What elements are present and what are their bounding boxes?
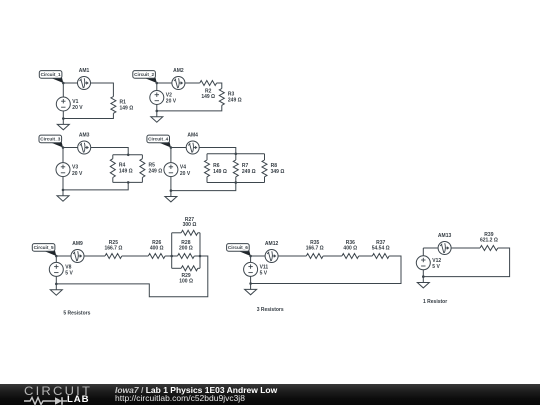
svg-text:5 V: 5 V <box>260 271 268 277</box>
svg-text:AM9: AM9 <box>72 241 83 247</box>
svg-text:Circuit_1: Circuit_1 <box>41 72 61 77</box>
svg-text:300 Ω: 300 Ω <box>183 222 197 228</box>
svg-text:5 V: 5 V <box>432 264 440 270</box>
svg-text:V11: V11 <box>260 264 269 270</box>
svg-text:149 Ω: 149 Ω <box>119 169 133 175</box>
svg-text:Circuit_5: Circuit_5 <box>34 245 54 250</box>
svg-text:V3: V3 <box>72 165 78 171</box>
svg-text:249 Ω: 249 Ω <box>242 169 256 175</box>
svg-text:1 Resistor: 1 Resistor <box>423 299 447 305</box>
svg-text:249 Ω: 249 Ω <box>149 169 163 175</box>
svg-text:166.7 Ω: 166.7 Ω <box>306 245 324 251</box>
svg-text:Circuit_3: Circuit_3 <box>40 137 60 142</box>
svg-text:V2: V2 <box>166 93 172 99</box>
svg-text:Circuit_6: Circuit_6 <box>228 245 248 250</box>
svg-text:AM4: AM4 <box>187 133 198 139</box>
svg-text:5 Resistors: 5 Resistors <box>63 311 90 317</box>
svg-text:20 V: 20 V <box>166 99 177 105</box>
svg-text:149 Ω: 149 Ω <box>201 94 215 100</box>
svg-text:400 Ω: 400 Ω <box>150 245 164 251</box>
svg-text:AM1: AM1 <box>79 68 90 74</box>
svg-text:V1: V1 <box>72 99 78 105</box>
svg-text:100 Ω: 100 Ω <box>179 278 193 284</box>
svg-text:V4: V4 <box>180 165 186 171</box>
svg-text:AM3: AM3 <box>79 133 90 139</box>
svg-text:AM13: AM13 <box>438 233 452 239</box>
svg-text:Circuit_2: Circuit_2 <box>134 72 154 77</box>
svg-text:20 V: 20 V <box>72 105 83 111</box>
svg-text:20 V: 20 V <box>180 171 191 177</box>
svg-text:149 Ω: 149 Ω <box>213 169 227 175</box>
svg-text:400 Ω: 400 Ω <box>343 245 357 251</box>
svg-text:V12: V12 <box>432 258 441 264</box>
svg-text:149 Ω: 149 Ω <box>120 105 134 111</box>
svg-text:249 Ω: 249 Ω <box>228 97 242 103</box>
svg-text:V8: V8 <box>65 264 71 270</box>
svg-text:Circuit_4: Circuit_4 <box>148 137 168 142</box>
svg-text:AM12: AM12 <box>265 241 279 247</box>
svg-text:20 V: 20 V <box>72 171 83 177</box>
svg-text:200 Ω: 200 Ω <box>179 245 193 251</box>
svg-text:166.7 Ω: 166.7 Ω <box>104 245 122 251</box>
svg-text:54.54 Ω: 54.54 Ω <box>372 245 390 251</box>
svg-text:349 Ω: 349 Ω <box>271 169 285 175</box>
svg-text:5 V: 5 V <box>65 271 73 277</box>
svg-text:3 Resistors: 3 Resistors <box>257 307 284 313</box>
svg-text:AM2: AM2 <box>173 68 184 74</box>
svg-text:621.2 Ω: 621.2 Ω <box>480 237 498 243</box>
